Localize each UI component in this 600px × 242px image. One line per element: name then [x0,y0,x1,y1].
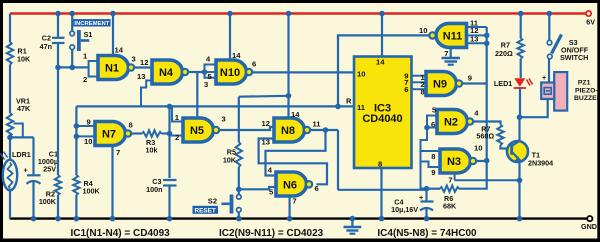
switch S1 (INCREMENT push switch) [69,11,92,68]
nand gate N11 (mirrored, 3-input) [419,18,479,47]
piezo buzzer PZ1 [541,72,600,111]
6V terminal [586,11,595,27]
N8 output drop to oscillator gate line [337,130,339,190]
svg-text:11: 11 [357,103,366,112]
node R3/C3/N5 pin2 [167,104,173,178]
resistor R7 220ohm [495,11,524,59]
wires IC3 pins 9,7,6 to N9 inputs [412,73,427,97]
wire R3 to node [162,132,170,134]
svg-text:N5: N5 [190,125,204,137]
svg-text:3: 3 [204,80,208,89]
svg-text:9: 9 [87,118,91,127]
N6 pin 7 ground line [287,196,297,221]
wire N5 out to N8 pin 12 [219,127,274,130]
N8 pin 13 feedback from N6 out [259,139,327,185]
svg-text:9: 9 [431,168,435,177]
N7 pin 7 ground line [110,146,121,222]
svg-text:RESET: RESET [195,207,216,214]
svg-text:14: 14 [376,58,385,67]
svg-text:8: 8 [431,152,435,161]
svg-text:47K: 47K [17,104,31,113]
svg-text:10K: 10K [223,156,237,165]
resistor R7 560ohm [476,124,503,145]
svg-text:IC2(N9-N11) = CD4023: IC2(N9-N11) = CD4023 [219,228,324,239]
nand gate N10 [216,60,256,85]
svg-text:7: 7 [444,49,448,58]
svg-text:6: 6 [252,60,256,69]
svg-text:10µ,16V: 10µ,16V [391,205,418,214]
svg-text:N1: N1 [105,63,119,75]
switch S2 (RESET push switch) [208,187,242,222]
svg-text:100K: 100K [39,197,57,206]
wire R7b to T1 base [501,145,511,149]
nand gate N5 [183,115,226,143]
svg-text:PIEZO-: PIEZO- [575,87,598,94]
N11 input stubs to tie column [467,27,490,46]
N8 out wire and node [310,127,338,133]
N8 pin 14 supply line [286,11,301,119]
svg-text:6: 6 [315,184,319,193]
wire S3 to buzzer plus [548,59,550,83]
ground symbol under rail [344,216,362,234]
N3 pin 9 wire from column [421,162,441,178]
wire N10 out to IC3 pin10 [252,71,354,73]
resistor R6 [424,186,459,211]
transistor T1 2N3904 [507,141,553,168]
svg-text:N3: N3 [447,156,461,168]
svg-text:12: 12 [262,119,270,128]
svg-text:14: 14 [232,51,241,60]
LDR1 [1,150,31,190]
N1 pin 14 supply line [110,11,124,56]
svg-text:6: 6 [404,85,408,94]
svg-text:100K: 100K [83,187,101,196]
svg-text:N9: N9 [433,79,447,91]
GND terminal [581,216,597,231]
wire left supply column [9,14,11,43]
wire reset node to N6 pin 5 [239,187,276,189]
svg-text:14: 14 [291,110,300,119]
svg-text:10: 10 [357,70,365,79]
N3 out wire to tie column [476,158,489,164]
N9/N11/N3 tie column [486,27,488,161]
wire N7 out to R3 [131,132,142,134]
feedback column to R6 [459,161,487,189]
svg-text:8: 8 [129,121,133,130]
N11 pin 7 ground symbol [442,47,461,64]
nand gate N9 (3-input) [426,72,472,96]
wire reset column to C4 node [338,189,427,191]
N4 pin 13 wire from R line [137,72,152,106]
svg-text:13: 13 [137,72,145,81]
svg-text:14: 14 [115,46,124,55]
nand gate N6 [268,166,319,197]
svg-text:SWITCH: SWITCH [560,53,588,62]
wire N9 out to tie column [462,82,487,84]
svg-text:10k: 10k [146,146,158,155]
svg-text:560Ω: 560Ω [476,132,494,141]
capacitor C3 [146,177,176,221]
svg-text:IC4(N5-N8) = 74HC00: IC4(N5-N8) = 74HC00 [377,228,477,239]
wire N1 out to N4 pin12 [134,66,152,68]
switch S3 ON/OFF [547,11,589,62]
nand gate N2 [431,105,479,133]
N11 out wire to reset column [338,35,429,40]
N5 pin14 line from N4 out wire [196,72,198,118]
6V supply rail (red) [10,12,586,15]
svg-text:N8: N8 [281,125,295,137]
svg-text:8: 8 [421,88,425,97]
svg-text:BUZZER: BUZZER [574,95,600,102]
wire to N5 pin 1 [172,106,183,122]
IC3 pin 8 ground line [379,168,385,221]
svg-text:47n: 47n [40,42,52,51]
svg-text:220Ω: 220Ω [495,49,513,58]
capacitor C1 [24,137,59,221]
T1 emitter wire to ground rail [517,162,523,222]
svg-text:7: 7 [448,175,452,184]
svg-text:2: 2 [83,75,87,84]
N8 out feedback to N6 pin 4 [266,130,326,176]
LED1 [494,78,533,88]
svg-text:10K: 10K [17,55,31,64]
nand gate N3 [440,144,482,174]
svg-text:INCREMENT: INCREMENT [74,21,109,27]
N11 output to IC3 reset pin column [337,35,339,107]
node R line / N11 column [335,104,341,110]
node C2/S1/N1 input wire [55,65,88,71]
reset net horizontal wire [76,105,354,107]
svg-text:2N3904: 2N3904 [528,159,553,168]
svg-text:+: + [419,193,423,202]
nand gate N4 [152,60,188,84]
wire N2 out to R7b [473,122,500,125]
wire node to N5 pin 2 [170,133,184,142]
svg-text:8: 8 [378,160,382,169]
resistor R3 [142,130,162,154]
N7 input tie column to R4 [74,106,95,175]
bottom IC identification text [71,228,478,239]
wire VR1 to node [9,136,11,161]
svg-text:N10: N10 [220,67,240,79]
wire buzzer minus to collector node [520,99,548,117]
svg-text:LED1: LED1 [494,79,512,88]
svg-text:10: 10 [474,144,482,153]
wire N4 out to N10 inputs [188,69,207,75]
svg-text:N7: N7 [102,129,116,141]
RESET label box [193,206,219,215]
potmeter VR1 [7,97,31,138]
svg-text:11: 11 [313,120,322,129]
svg-text:S1: S1 [84,30,93,39]
INCREMENT label box [73,19,110,27]
resistor R1 [7,42,31,65]
resistor R2 [39,175,61,221]
svg-text:7: 7 [116,148,120,157]
nand gate N1 [98,55,136,80]
resistor R5 pullup [223,93,291,197]
svg-text:7: 7 [292,197,296,206]
svg-text:N4: N4 [159,67,174,79]
capacitor C2 [40,11,65,68]
N10 input bracket pins 4,5,3 [204,55,216,89]
IC3 pin 14 supply line [379,11,385,57]
N3 pin 7 wire to emitter column [448,173,519,185]
svg-text:12: 12 [140,58,148,67]
N10 pin 14 supply line [227,11,241,60]
svg-text:S2: S2 [208,196,217,205]
N1 input tie bracket [83,52,98,85]
IC3 CD4040 counter [354,57,412,169]
svg-text:+: + [542,73,546,82]
svg-text:100n: 100n [146,185,162,194]
nand gate N8 [262,118,322,147]
svg-text:2: 2 [175,133,179,142]
svg-text:N11: N11 [443,30,463,42]
svg-text:6V: 6V [586,18,595,27]
wire C2 node to R2 [57,67,59,175]
wire R7a to LED [520,59,522,79]
capacitor C4 [391,189,433,222]
svg-text:PZ1: PZ1 [578,80,591,87]
svg-text:CD4040: CD4040 [362,113,402,125]
svg-text:3: 3 [222,115,226,124]
svg-text:25V: 25V [43,165,56,174]
svg-text:68K: 68K [443,202,457,211]
resistor R4 [73,175,100,221]
svg-text:LDR1: LDR1 [12,150,31,159]
N2 input bracket and column [421,116,438,189]
svg-text:10: 10 [84,137,92,146]
svg-text:3: 3 [132,55,136,64]
wire LDR to ground rail [9,190,11,219]
svg-text:GND: GND [581,222,597,231]
nand gate N7 [95,121,133,146]
svg-text:+: + [24,165,28,174]
svg-text:10: 10 [419,26,427,35]
svg-text:N2: N2 [444,117,458,129]
node VR1/LDR/C1 [7,135,33,141]
wire LED to collector node [517,88,523,120]
svg-text:R: R [346,97,352,106]
svg-text:9: 9 [468,74,472,83]
ground rail (black) [10,217,587,219]
T1 collector wire [518,117,520,142]
N3 pin 8 wire from column [421,151,441,161]
svg-text:IC1(N1-N4) = CD4093: IC1(N1-N4) = CD4093 [71,228,171,239]
wire R1 to VR1 [9,65,11,114]
svg-text:N6: N6 [283,179,297,191]
